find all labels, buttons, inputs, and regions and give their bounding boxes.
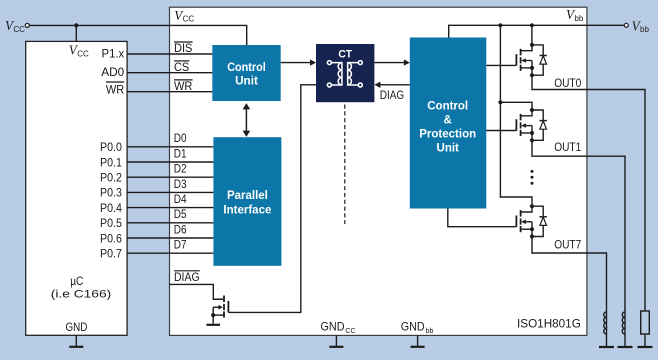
svg-text:bb: bb	[574, 14, 583, 23]
svg-text:CC: CC	[77, 50, 89, 59]
wire P0.6-D6	[127, 237, 213, 239]
wire gate OUT0	[486, 64, 516, 66]
junction bus-OUT1	[498, 100, 502, 104]
svg-text:DIAG: DIAG	[174, 270, 200, 284]
wire VCC rail	[29, 25, 247, 45]
wire OUT1	[532, 140, 625, 312]
svg-text:D7: D7	[174, 238, 187, 252]
svg-text:CC: CC	[183, 15, 195, 24]
svg-text:WR: WR	[106, 83, 124, 97]
coupling transformer CT	[316, 44, 374, 102]
svg-text:D5: D5	[174, 207, 187, 221]
wire OUT0 feed	[531, 25, 533, 45]
svg-text:Unit: Unit	[437, 143, 460, 155]
svg-text:(i.e C166): (i.e C166)	[51, 288, 111, 300]
ground GNDcc	[335, 335, 337, 347]
svg-text:D4: D4	[174, 192, 187, 206]
wire AD0-CS	[127, 72, 212, 74]
svg-text:OUT7: OUT7	[554, 237, 581, 251]
wire P1.x-DIS	[127, 53, 212, 55]
VCC terminal	[25, 23, 29, 27]
diode D-OUT0	[532, 45, 543, 75]
svg-text:P0.6: P0.6	[100, 231, 122, 245]
wire OUT0	[532, 75, 645, 311]
junction Vbb-bus	[498, 23, 502, 27]
svg-text:GND: GND	[321, 320, 345, 334]
arrow CT-CPUnit	[374, 62, 404, 64]
svg-text:CT: CT	[338, 48, 352, 60]
inductor load OUT1	[622, 312, 625, 334]
svg-text:Parallel: Parallel	[227, 190, 268, 202]
svg-text:D0: D0	[174, 131, 187, 145]
ground GNDbb	[417, 335, 419, 347]
svg-text:D3: D3	[174, 177, 187, 191]
svg-text:Unit: Unit	[235, 76, 258, 88]
transistor Q-OUT1	[520, 114, 522, 121]
Vbb terminal	[624, 23, 628, 27]
svg-text:P0.2: P0.2	[100, 171, 122, 185]
wire P0.4-D4	[127, 207, 213, 209]
transistor Q-OUT0	[520, 49, 522, 56]
wire P0.2-D2	[127, 176, 213, 178]
transistor Q-DIAG	[223, 296, 225, 303]
wire P0.7-D7	[127, 252, 213, 254]
diode D-OUT1	[532, 110, 543, 140]
ellipsis outputs	[531, 170, 534, 173]
inductor load OUT7	[604, 312, 607, 334]
svg-text:bb: bb	[426, 328, 434, 335]
svg-text:&: &	[444, 115, 452, 127]
wire gate OUT1	[486, 130, 516, 132]
svg-text:P0.7: P0.7	[100, 247, 122, 261]
svg-text:Interface: Interface	[223, 205, 271, 217]
svg-text:P0.5: P0.5	[100, 216, 122, 230]
svg-text:OUT0: OUT0	[554, 76, 581, 90]
svg-text:P1.x: P1.x	[102, 46, 125, 60]
svg-text:CC: CC	[345, 328, 355, 335]
ground Q-DIAG	[207, 324, 221, 326]
wire P0.3-D3	[127, 191, 213, 193]
svg-text:D6: D6	[174, 222, 187, 236]
ground load OUT0	[638, 346, 653, 348]
ground load OUT1	[618, 346, 633, 348]
svg-text:P0.4: P0.4	[100, 201, 122, 215]
svg-text:CS: CS	[174, 60, 189, 74]
block Control & Protection Unit	[410, 38, 487, 209]
wire P0.1-D1	[127, 161, 213, 163]
svg-text:bb: bb	[640, 25, 649, 34]
ground uC	[75, 335, 77, 347]
svg-text:P0.0: P0.0	[100, 140, 122, 154]
svg-text:P0.1: P0.1	[100, 155, 122, 169]
diode D-OUT7	[532, 206, 543, 236]
svg-text:DIS: DIS	[174, 41, 192, 55]
block Control Unit	[212, 45, 280, 101]
wire gate OUT7	[448, 209, 517, 227]
svg-text:GND: GND	[66, 320, 88, 334]
svg-text:Control: Control	[227, 62, 266, 74]
wire OUT1 feed	[500, 102, 532, 110]
svg-text:CC: CC	[13, 25, 25, 34]
svg-text:WR: WR	[174, 79, 193, 93]
isolation barrier dashed line	[344, 105, 346, 225]
wire Vbb bus	[500, 25, 532, 206]
ground load OUT7	[599, 346, 614, 348]
wire OUT7	[532, 237, 607, 313]
wire VCC to uC	[75, 25, 77, 41]
block Parallel Interface	[213, 137, 281, 266]
microcontroller box uC	[26, 41, 127, 335]
svg-text:GND: GND	[401, 320, 425, 334]
IC package outline ISO1H801G	[170, 7, 587, 335]
svg-text:D1: D1	[174, 146, 187, 160]
svg-text:AD0: AD0	[101, 65, 124, 79]
svg-text:Protection: Protection	[419, 129, 476, 141]
svg-text:DIAG: DIAG	[380, 89, 404, 102]
svg-text:D2: D2	[174, 162, 187, 176]
svg-text:µC: µC	[70, 274, 84, 288]
junction VCC-uC	[74, 23, 78, 27]
wire WR-WR	[127, 91, 212, 93]
arrow Control-Parallel	[245, 107, 247, 133]
transistor Q-OUT7	[520, 210, 522, 217]
junction Vbb-OUT0	[530, 23, 534, 27]
svg-text:OUT1: OUT1	[554, 140, 581, 154]
svg-text:Control: Control	[427, 101, 468, 113]
resistor load OUT0	[641, 311, 650, 334]
arrow CPUnit-CT DIAG	[380, 84, 410, 86]
arrow ControlUnit-CT	[281, 62, 311, 64]
wire DIAG to Q-gate... drain	[170, 284, 223, 299]
wire P0.5-D5	[127, 222, 213, 224]
wire CT to Q-DIAG gate	[228, 85, 316, 313]
svg-text:P0.3: P0.3	[100, 186, 122, 200]
svg-text:ISO1H801G: ISO1H801G	[517, 316, 581, 330]
wire P0.0-D0	[127, 146, 213, 148]
wire Vbb rail	[449, 25, 625, 37]
